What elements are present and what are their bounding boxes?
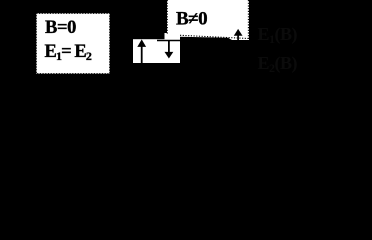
svg-text:B=0: B=0 — [45, 18, 76, 38]
box B≠0 (dotted callout, top right, open bottom-left, sloped bottom) — [167, 0, 249, 40]
svg-text:E2(B): E2(B) — [258, 53, 298, 75]
spin-down arrow (hanging from level line) — [168, 41, 170, 53]
svg-text:E1= E2: E1= E2 — [45, 42, 92, 63]
box B≠0 right dotted border — [247, 0, 249, 40]
box B≠0 bottom dotted border (sloped) — [180, 35, 249, 38]
white notch under box B≠0 left corner — [165, 33, 181, 40]
svg-text:E1(B): E1(B) — [258, 24, 298, 46]
upper level line — [157, 40, 180, 42]
spin-up arrow (left, in level box) — [141, 46, 143, 64]
level box (white, middle) — [133, 39, 180, 63]
spin-up arrow (right, on B≠0 lower border) — [237, 35, 239, 40]
svg-text:B≠0: B≠0 — [176, 9, 207, 30]
box B≠0 left dotted border — [166, 0, 168, 34]
box B=0 (dotted callout, left) — [36, 13, 109, 73]
